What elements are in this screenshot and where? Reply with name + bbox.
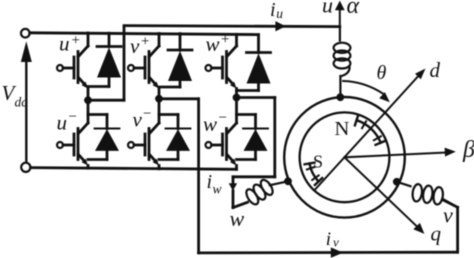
wire DC+ top rail [30, 33, 259, 35]
wire DC- bottom rail [31, 168, 237, 170]
svg-text:S: S [313, 152, 323, 172]
svg-text:+: + [141, 34, 149, 50]
label w+ [206, 32, 230, 57]
label i_w [207, 171, 222, 197]
transistor Q4 (v-) [128, 123, 159, 166]
diode D2 (u- freewheel) [88, 115, 119, 160]
svg-text:N: N [335, 118, 350, 140]
label i_u [270, 0, 283, 21]
svg-text:u: u [59, 32, 70, 56]
label w- [203, 110, 227, 136]
diode D4 (v- freewheel) [159, 115, 190, 160]
wire Q2 collector to node u [87, 100, 90, 123]
wire Q3 emitter to node v [158, 89, 161, 99]
wire Q3 collector to top rail [158, 34, 161, 47]
label u+ [59, 32, 80, 56]
svg-text:i: i [270, 0, 276, 21]
svg-text:i: i [326, 229, 331, 250]
svg-text:−: − [143, 106, 151, 122]
wire phase u output [88, 26, 340, 101]
label Vdc [2, 81, 28, 110]
svg-text:w: w [203, 112, 217, 136]
node stator v connection dot [393, 178, 401, 186]
svg-text:β: β [462, 137, 474, 163]
motor stator inner circle [300, 112, 390, 202]
label i_v [326, 229, 339, 250]
coil Lw (stator winding w) [244, 178, 288, 206]
label u- [57, 109, 77, 135]
svg-text:v: v [443, 203, 453, 228]
svg-text:v: v [133, 108, 143, 132]
coil Lv (stator winding v) [397, 182, 458, 208]
motor stator outer circle [284, 97, 405, 218]
svg-text:v: v [130, 34, 140, 58]
svg-text:α: α [347, 0, 360, 19]
svg-text:θ: θ [377, 62, 387, 84]
axis beta arrow [345, 148, 456, 158]
wire phase w output [233, 98, 275, 208]
rotor magnet S pole arc [305, 163, 323, 185]
angle theta arc arrow [343, 81, 390, 102]
rotor magnet N pole arc [355, 116, 385, 144]
wire Q5 emitter to node w [235, 89, 238, 98]
diode D3 (v+ freewheel) [159, 34, 192, 87]
diode D5 (w+ freewheel) [237, 35, 271, 91]
wire Q1 emitter to node u [87, 89, 90, 101]
node u (phase u junction dot) [84, 96, 92, 104]
label v- [133, 106, 152, 132]
wire Q6 emitter to bottom rail [235, 166, 238, 170]
wire Q5 collector to top rail [235, 34, 238, 46]
svg-text:−: − [69, 109, 77, 125]
node w (phase w junction dot) [233, 94, 241, 102]
label v+ [130, 34, 149, 59]
svg-text:−: − [219, 110, 227, 126]
axis d arrowhead [415, 69, 426, 80]
node v (phase v junction dot) [155, 95, 163, 103]
svg-text:q: q [431, 222, 442, 246]
svg-text:+: + [221, 32, 229, 48]
svg-text:u: u [322, 0, 333, 18]
arrow i_w [229, 183, 238, 191]
svg-text:dc: dc [15, 95, 28, 110]
wire Q4 collector to node v [158, 99, 161, 123]
transistor Q2 (u-) [57, 123, 88, 166]
Vdc arrow (DC bus voltage annotation) [21, 41, 32, 162]
node stator u connection dot [336, 93, 344, 101]
node stator w connection dot [284, 177, 292, 185]
svg-text:i: i [207, 171, 213, 193]
svg-text:v: v [333, 235, 339, 250]
arrow i_u [275, 21, 285, 31]
svg-text:w: w [206, 32, 220, 56]
wire Q6 collector to node w [235, 98, 238, 124]
svg-text:+: + [72, 33, 80, 49]
diode D1 (u+ freewheel) [88, 33, 121, 86]
rotor d-axis diameter line [314, 77, 418, 191]
wire Q1 collector to top rail [87, 33, 90, 46]
transistor Q6 (w-) [206, 123, 237, 166]
transistor Q1 (u+) [57, 46, 88, 89]
arrow i_v [331, 247, 343, 258]
transistor Q5 (w+) [206, 46, 237, 89]
diode D6 (w- freewheel) [237, 115, 268, 160]
svg-text:w: w [213, 182, 222, 197]
wire Q2 emitter to bottom rail [87, 166, 90, 169]
wire Q4 emitter to bottom rail [158, 166, 161, 169]
axis alpha arrow [335, 1, 345, 27]
svg-text:u: u [57, 111, 68, 135]
svg-text:u: u [276, 6, 283, 21]
terminal + (DC positive input) [21, 29, 30, 38]
wire phase v output [159, 99, 458, 253]
svg-text:d: d [430, 58, 441, 82]
axis q arrow [345, 157, 425, 234]
coil Lu (stator winding u) [334, 27, 351, 98]
transistor Q3 (v+) [128, 46, 159, 89]
svg-text:w: w [230, 206, 245, 231]
terminal - (DC negative input) [21, 163, 30, 172]
